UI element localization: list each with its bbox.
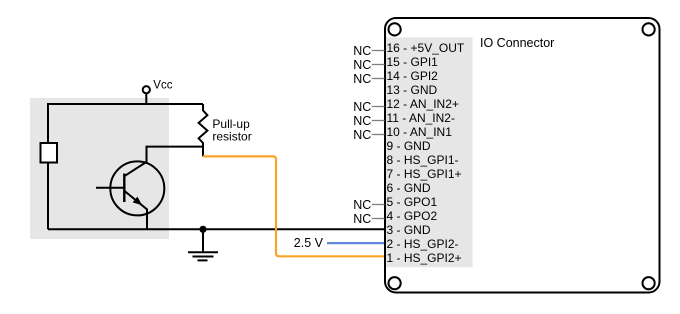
NC lead pin 10 — [372, 134, 385, 136]
sensor block shaded region — [30, 98, 169, 239]
svg-text:NC: NC — [353, 212, 371, 226]
pull-up resistor (zigzag) — [199, 104, 208, 156]
NC lead pin 5 — [372, 204, 385, 206]
svg-text:NC: NC — [353, 58, 371, 72]
NC lead pin 11 — [372, 120, 385, 122]
svg-text:12 - AN_IN2+: 12 - AN_IN2+ — [387, 97, 459, 111]
NC lead pin 16 — [372, 50, 385, 52]
svg-text:8 - HS_GPI1-: 8 - HS_GPI1- — [387, 153, 459, 167]
pin strip background — [386, 37, 473, 267]
node: rail-ground junction dot — [199, 226, 206, 233]
svg-text:14 - GPI2: 14 - GPI2 — [387, 69, 439, 83]
screw hole bottom-right — [643, 277, 655, 289]
NC lead pin 12 — [372, 106, 385, 108]
svg-text:resistor: resistor — [212, 130, 251, 144]
wire: orange signal to pin 1 HS_GPI2+ — [203, 156, 385, 256]
transistor Q1 emitter — [124, 191, 147, 229]
screw hole top-left — [389, 23, 401, 35]
transistor Q1 base bar — [123, 174, 125, 203]
wire: left loop vertical + top horizontal to pull-up — [48, 104, 203, 229]
Vcc supply stem — [145, 93, 147, 104]
ground symbol bars — [188, 251, 218, 253]
svg-text:1 - HS_GPI2+: 1 - HS_GPI2+ — [387, 251, 462, 265]
transistor Q1 emitter arrowhead — [133, 197, 143, 206]
NC lead pin 4 — [372, 218, 385, 220]
transistor Q1 body circle — [110, 161, 164, 215]
NC lead pin 14 — [372, 78, 385, 80]
NC lead pin 15 — [372, 64, 385, 66]
svg-text:6 - GND: 6 - GND — [387, 181, 431, 195]
svg-text:NC: NC — [353, 128, 371, 142]
svg-text:NC: NC — [353, 198, 371, 212]
svg-text:9 - GND: 9 - GND — [387, 139, 431, 153]
svg-text:4 - GPO2: 4 - GPO2 — [387, 209, 438, 223]
ground symbol stem — [202, 229, 204, 251]
svg-text:NC: NC — [353, 114, 371, 128]
wire: blue 2.5V to pin 2 HS_GPI2- — [327, 242, 385, 244]
svg-text:15 - GPI1: 15 - GPI1 — [387, 55, 439, 69]
svg-text:Vcc: Vcc — [153, 80, 172, 92]
svg-text:7 - HS_GPI1+: 7 - HS_GPI1+ — [387, 167, 462, 181]
svg-text:NC: NC — [353, 72, 371, 86]
svg-text:13 - GND: 13 - GND — [387, 83, 438, 97]
svg-text:5 - GPO1: 5 - GPO1 — [387, 195, 438, 209]
svg-text:2 - HS_GPI2-: 2 - HS_GPI2- — [387, 237, 459, 251]
transistor Q1 base lead — [96, 187, 124, 189]
svg-text:IO Connector: IO Connector — [480, 36, 554, 50]
Vcc supply terminal circle — [143, 86, 150, 93]
wire: collector to pull-up bottom — [146, 146, 204, 148]
wire: ground/emitter rail to pin 3 — [48, 228, 385, 230]
screw hole bottom-left — [389, 277, 401, 289]
svg-text:2.5 V: 2.5 V — [294, 236, 324, 250]
resistor R1 (box component on left wire) — [41, 143, 58, 163]
svg-text:11 - AN_IN2-: 11 - AN_IN2- — [387, 111, 455, 125]
svg-text:10 - AN_IN1: 10 - AN_IN1 — [387, 125, 453, 139]
svg-text:NC: NC — [353, 44, 371, 58]
svg-text:3 - GND: 3 - GND — [387, 223, 431, 237]
IO connector body — [385, 18, 660, 293]
screw hole top-right — [643, 23, 655, 35]
svg-text:NC: NC — [353, 100, 371, 114]
svg-text:16 - +5V_OUT: 16 - +5V_OUT — [387, 41, 465, 55]
transistor Q1 collector — [124, 147, 146, 177]
